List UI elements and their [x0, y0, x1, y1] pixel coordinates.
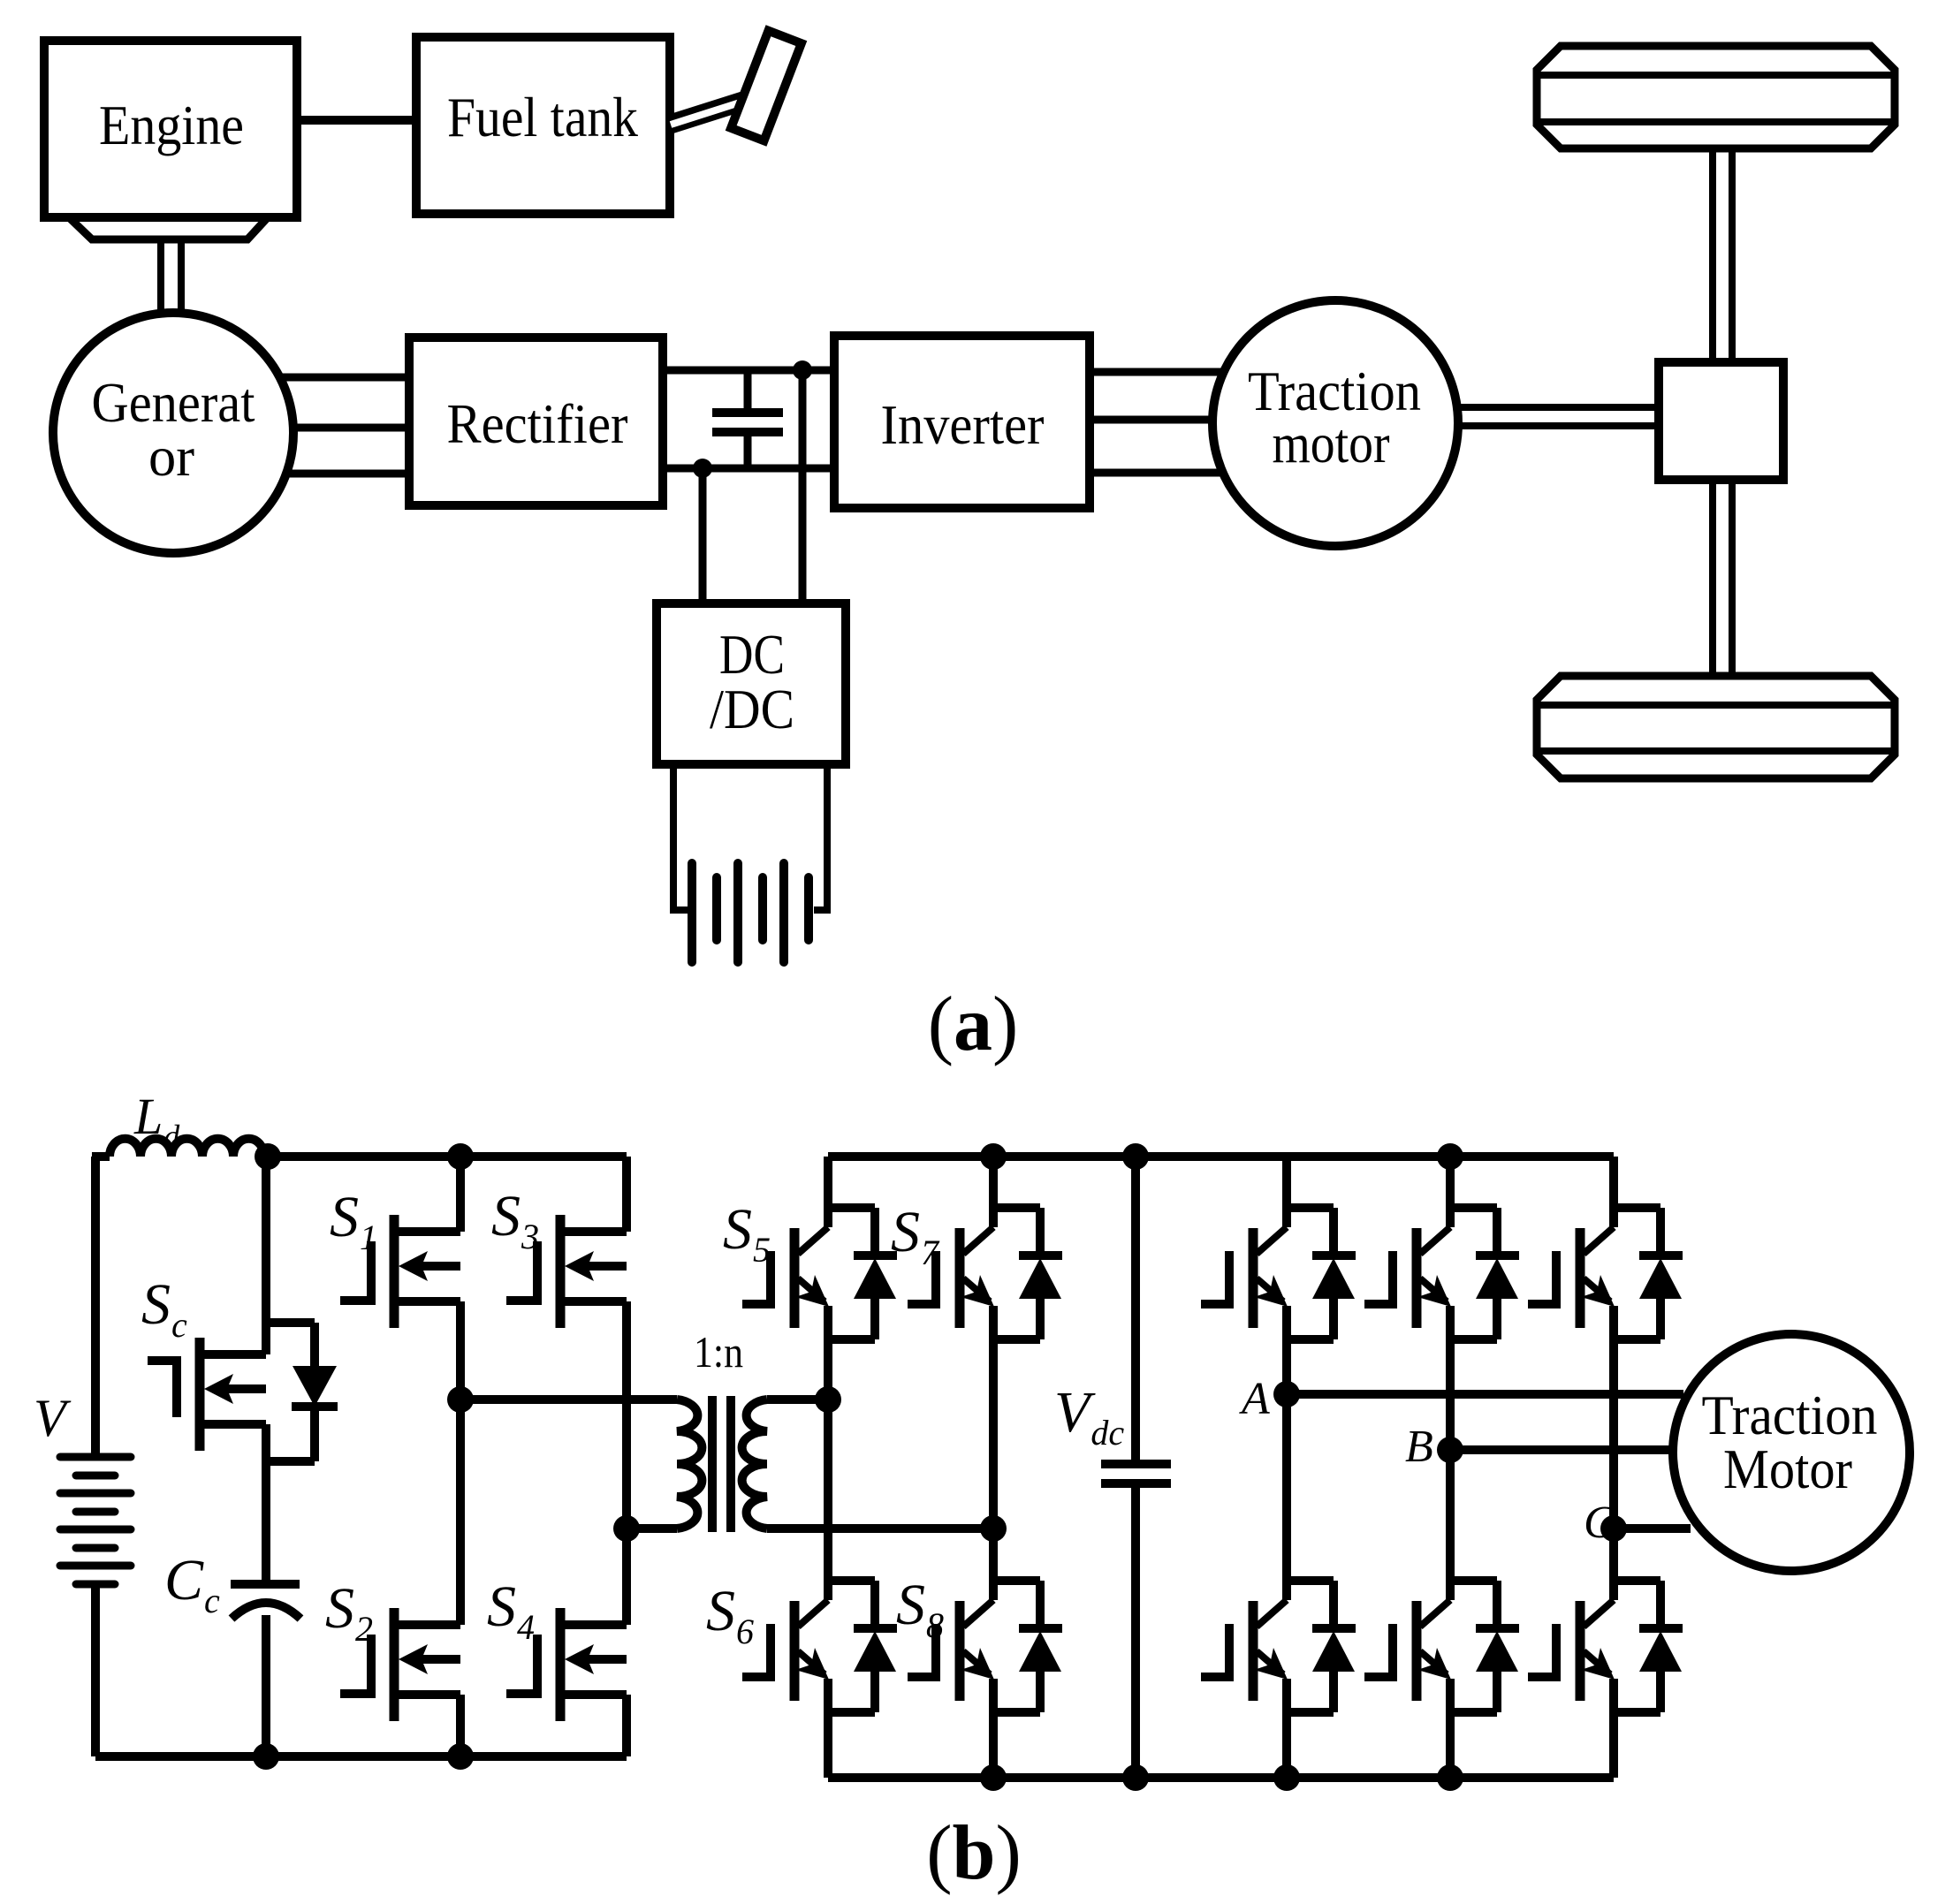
battery V bottom lead — [91, 1584, 100, 1756]
wire S5-S6 leg — [824, 1306, 832, 1600]
wire dc link to dc/dc left — [699, 468, 707, 603]
wire S1-S2 node to primary — [460, 1395, 677, 1404]
wire phase B bottom emitter — [1446, 1679, 1455, 1778]
fuel filler handle — [731, 31, 802, 140]
top rail left — [262, 1152, 627, 1161]
node inductor-Sc — [255, 1143, 281, 1170]
mosfet S2 — [399, 1620, 460, 1629]
wire phase B to motor — [1450, 1445, 1673, 1454]
rectifier box — [409, 338, 663, 505]
wire engine to fuel tank — [297, 116, 416, 125]
engine-generator shaft — [157, 239, 164, 315]
svg-text:A: A — [1239, 1374, 1270, 1424]
node phase B top rail — [1437, 1143, 1463, 1170]
svg-text:Fuel tank: Fuel tank — [447, 87, 638, 148]
igbt phase C top — [1610, 1203, 1660, 1212]
wire phase B leg — [1446, 1306, 1455, 1600]
node S3-S4 midpoint — [613, 1515, 640, 1542]
node phase A bottom rail — [1273, 1764, 1300, 1791]
svg-text:(b): (b) — [926, 1810, 1022, 1896]
dc link capacitor — [744, 370, 752, 409]
igbt S6 — [825, 1576, 875, 1585]
node phase B bottom rail — [1437, 1764, 1463, 1791]
node top dc link — [793, 360, 812, 380]
inverter box — [834, 336, 1090, 508]
wire phase C leg — [1609, 1306, 1618, 1600]
wire phase C to motor — [1614, 1524, 1691, 1533]
igbt phase B bottom — [1447, 1576, 1497, 1585]
gearbox square — [1659, 362, 1783, 480]
top rail right — [828, 1152, 1614, 1161]
wire phase C bottom emitter — [1609, 1679, 1618, 1778]
igbt phase A bottom — [1283, 1576, 1334, 1585]
diode Dc across Sc — [266, 1318, 315, 1327]
wire phase C top collector — [1609, 1157, 1618, 1227]
transformer secondary winding — [742, 1400, 767, 1529]
capacitor Vdc — [1131, 1157, 1140, 1460]
node bottom dc link — [693, 459, 712, 478]
battery pack plates — [688, 863, 696, 962]
wire S1 drain — [456, 1157, 465, 1232]
node S1 drain rail — [447, 1143, 474, 1170]
wire S7-S8 leg — [989, 1306, 998, 1600]
node Cc bottom — [253, 1743, 279, 1770]
dc/dc converter box — [657, 603, 846, 764]
wire S1-S2 leg — [456, 1301, 465, 1625]
three-phase wires generator to rectifier — [265, 374, 409, 382]
svg-text:Generat: Generat — [92, 372, 255, 434]
battery V top lead — [91, 1157, 100, 1457]
svg-text:Traction: Traction — [1702, 1384, 1878, 1446]
node phase C — [1600, 1515, 1627, 1542]
igbt phase C bottom — [1610, 1576, 1660, 1585]
node Vdc bottom rail — [1122, 1764, 1149, 1791]
svg-text:V: V — [34, 1389, 72, 1447]
wire dc link to dc/dc right — [799, 370, 807, 603]
igbt S5 — [825, 1203, 875, 1212]
engine box — [44, 41, 297, 217]
dc link top wire — [663, 367, 834, 375]
igbt phase B top — [1447, 1203, 1497, 1212]
svg-text:Inverter: Inverter — [881, 394, 1045, 456]
svg-text:Rectifier: Rectifier — [447, 393, 628, 455]
svg-text:(a): (a) — [928, 982, 1019, 1067]
battery V plates — [60, 1453, 131, 1461]
wire phase A leg — [1282, 1306, 1291, 1600]
three-phase wires inverter to traction motor — [1090, 368, 1237, 376]
wire S3-S4 node to primary — [627, 1524, 677, 1533]
wire S3-S4 leg — [622, 1301, 631, 1625]
traction motor circle — [1212, 300, 1458, 546]
wire Sc source to Cc — [262, 1424, 270, 1584]
node S1-S2 midpoint — [447, 1386, 474, 1413]
bottom wheel — [1537, 676, 1895, 778]
engine coupling trapezoid — [69, 217, 268, 239]
mosfet S1 — [399, 1227, 460, 1236]
top axle — [1709, 148, 1716, 362]
svg-text:/DC: /DC — [710, 679, 794, 740]
svg-text:Engine: Engine — [99, 95, 244, 156]
wire phase B top collector — [1446, 1157, 1455, 1227]
inductor Ld — [92, 1152, 110, 1161]
fuel tank box — [416, 37, 670, 214]
wire S3 drain — [622, 1157, 631, 1232]
igbt phase A top — [1283, 1203, 1334, 1212]
node S2 source bottom — [447, 1743, 474, 1770]
wire Sc drain — [262, 1157, 270, 1354]
svg-text:Motor: Motor — [1723, 1438, 1852, 1500]
wire S4 source — [622, 1695, 631, 1756]
traction motor circle b — [1673, 1334, 1910, 1571]
fuel filler pipe — [669, 96, 758, 125]
node phase B — [1437, 1437, 1463, 1463]
node phase A — [1273, 1381, 1300, 1407]
svg-text:or: or — [148, 426, 194, 488]
transformer core — [708, 1396, 717, 1532]
mosfet S4 — [565, 1620, 627, 1629]
bottom rail right — [828, 1773, 1614, 1782]
bottom axle — [1709, 480, 1716, 676]
mosfet Sc — [204, 1350, 266, 1359]
dc link bottom wire — [663, 465, 834, 473]
svg-text:B: B — [1405, 1422, 1433, 1472]
mosfet S3 — [565, 1227, 627, 1236]
bottom rail left — [95, 1752, 627, 1761]
svg-text:DC: DC — [719, 624, 785, 686]
wire S8 emitter — [989, 1679, 998, 1778]
wire S6 emitter — [824, 1679, 832, 1778]
node S7 rail — [980, 1143, 1007, 1170]
capacitor Cc — [231, 1580, 300, 1589]
wire phase A bottom emitter — [1282, 1679, 1291, 1778]
wire S7 collector — [989, 1157, 998, 1227]
svg-text:C: C — [1584, 1498, 1615, 1548]
wire phase A top collector — [1282, 1157, 1291, 1227]
top wheel — [1537, 46, 1895, 148]
igbt S7 — [990, 1203, 1040, 1212]
wire secondary top to S5-S6 node — [767, 1395, 828, 1404]
svg-text:1:n: 1:n — [694, 1327, 743, 1377]
node S7-S8 midpoint — [980, 1515, 1007, 1542]
node S8 bottom rail — [980, 1764, 1007, 1791]
wire dc/dc to battery left — [673, 764, 688, 910]
wire S2 source — [456, 1695, 465, 1756]
node Vdc top rail — [1122, 1143, 1149, 1170]
svg-text:motor: motor — [1273, 413, 1390, 474]
wire dc/dc to battery right — [814, 764, 827, 910]
generator circle — [53, 313, 293, 553]
motor-gearbox shaft — [1456, 404, 1659, 411]
wire S5 collector — [824, 1157, 832, 1227]
igbt S8 — [990, 1576, 1040, 1585]
node S5-S6 midpoint — [815, 1386, 841, 1413]
wire phase A to motor — [1287, 1390, 1683, 1399]
transformer primary winding — [677, 1400, 702, 1529]
wire secondary bottom to S7-S8 node — [767, 1524, 993, 1533]
